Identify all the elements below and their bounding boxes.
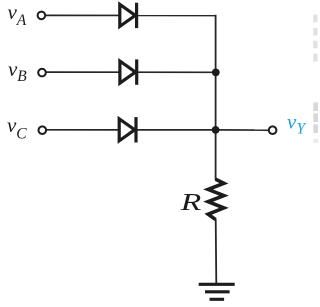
svg-text:R: R [179,190,201,216]
svg-text:A: A [16,12,27,29]
svg-text:C: C [16,126,27,143]
svg-text:Y: Y [297,121,307,138]
svg-text:v: v [287,110,297,134]
svg-text:B: B [17,68,27,85]
